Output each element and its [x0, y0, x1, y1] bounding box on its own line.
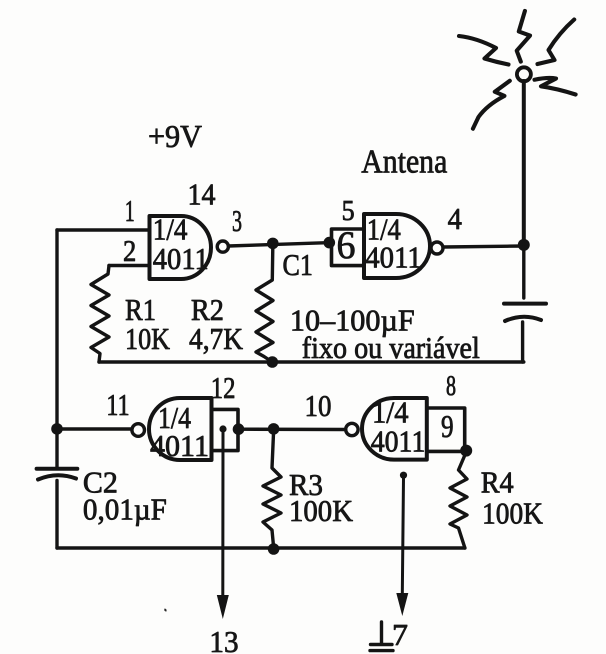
node R4 top junction [460, 445, 472, 457]
wire pin7 arrow shaft [402, 478, 403, 595]
svg-text:0,01µF: 0,01µF [83, 492, 167, 527]
antenna terminal circle [517, 67, 531, 81]
NAND gate U1a (1/4 4011) [150, 216, 212, 279]
capacitor C2 lead bottom [55, 481, 58, 549]
svg-text:6: 6 [337, 224, 356, 267]
ink speck [164, 609, 166, 612]
U1c output bubble [132, 424, 145, 437]
antenna spark bolt lower-left [473, 81, 510, 129]
resistor R2 [256, 247, 273, 362]
svg-text:R4: R4 [481, 465, 514, 500]
node pin7 tap dot [400, 472, 407, 479]
NAND gate U1d (1/4 4011, mirrored) [362, 398, 427, 460]
pin13 arrowhead [217, 595, 229, 619]
capacitor C1 lead bottom [521, 322, 524, 362]
node junction R2 bottom [267, 356, 279, 368]
capacitor C1 lead top [522, 247, 525, 298]
node antenna junction [518, 239, 530, 251]
node pin13 tap dot [219, 425, 226, 432]
wire bottom rail [57, 546, 465, 549]
U1b output bubble [431, 242, 443, 254]
wire pin13 arrow shaft [221, 432, 224, 597]
pin7 arrowhead [396, 593, 408, 616]
svg-text:fixo ou variável: fixo ou variável [302, 330, 480, 365]
svg-text:4011: 4011 [371, 424, 426, 459]
svg-text:13: 13 [209, 624, 238, 654]
U1a output bubble [217, 241, 228, 252]
wire pin11 from rail to U1c bubble [57, 427, 132, 430]
capacitor C1 top plate [504, 302, 546, 306]
svg-text:C1: C1 [283, 247, 313, 282]
ground symbol [370, 622, 393, 651]
U1c input tie bracket (pins 12-13) [212, 409, 239, 450]
wire pin4 from U1b to antenna node [443, 246, 524, 247]
svg-text:9: 9 [441, 408, 454, 444]
capacitor C1 bottom plate (curved) [505, 317, 541, 321]
U1d input tie bracket (pins 8-9) [427, 408, 465, 451]
antenna spark bolt upper-right [538, 20, 575, 65]
U1b input tie box (pins 5-6) [332, 229, 365, 266]
wire pin1 from left rail to U1a [57, 228, 150, 231]
wire pin2 from U1a to R1 [109, 264, 150, 267]
svg-text:12: 12 [211, 370, 236, 405]
svg-text:5: 5 [342, 196, 355, 227]
svg-text:100K: 100K [482, 496, 544, 531]
antenna spark bolt top [517, 11, 530, 62]
NAND gate U1c (1/4 4011, mirrored) [149, 398, 212, 460]
resistor R4 [450, 452, 467, 548]
svg-text:4011: 4011 [153, 241, 209, 276]
wire left rail vertical [55, 230, 58, 467]
antenna spark bolt upper-left [459, 36, 509, 65]
node R3 top junction [268, 423, 280, 435]
svg-text:4,7K: 4,7K [189, 321, 244, 356]
U1d output bubble [346, 423, 358, 435]
wire pin3 from U1a bubble to U1b input [228, 243, 331, 246]
svg-text:4011: 4011 [150, 428, 209, 463]
antenna mast wire [522, 81, 526, 247]
svg-text:1: 1 [125, 193, 135, 228]
svg-text:2: 2 [123, 233, 136, 268]
svg-text:11: 11 [106, 387, 129, 422]
resistor R3 [263, 431, 281, 547]
svg-text:100K: 100K [289, 493, 354, 528]
resistor R1 [91, 266, 109, 363]
node U1b input junction [324, 237, 336, 249]
wire U1c inputs to U1d output [239, 428, 346, 432]
NAND gate U1b (1/4 4011) [364, 214, 430, 278]
svg-text:10K: 10K [125, 321, 171, 356]
wire upper loop bottom rail [99, 360, 524, 363]
node junction pin3/R2 [267, 238, 279, 250]
svg-text:8: 8 [446, 371, 456, 402]
node U1c input junction [233, 423, 245, 435]
svg-text:4: 4 [448, 201, 463, 236]
capacitor C2 top plate [37, 467, 78, 471]
svg-text:+9V: +9V [148, 118, 202, 154]
svg-text:Antena: Antena [361, 144, 447, 181]
antenna spark bolt right [535, 78, 576, 95]
svg-text:14: 14 [188, 177, 216, 212]
capacitor C2 bottom plate (curved) [38, 475, 76, 479]
node R3 bottom junction [268, 543, 280, 555]
svg-text:7: 7 [392, 617, 408, 652]
svg-text:10: 10 [305, 388, 332, 423]
node pin11 junction on left rail [51, 423, 63, 435]
svg-text:3: 3 [232, 203, 242, 238]
svg-text:4011: 4011 [365, 240, 422, 275]
